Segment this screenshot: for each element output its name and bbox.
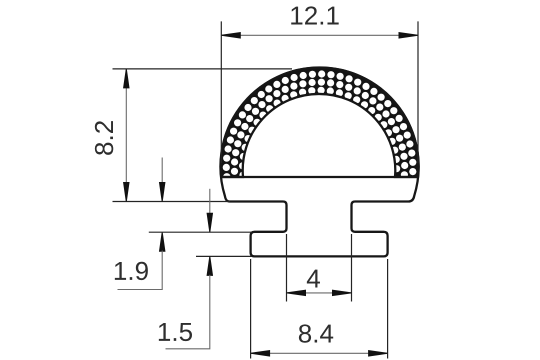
svg-text:8.4: 8.4 — [298, 319, 334, 349]
svg-text:1.5: 1.5 — [157, 317, 193, 347]
svg-text:12.1: 12.1 — [289, 1, 340, 31]
svg-text:8.2: 8.2 — [89, 120, 119, 156]
svg-text:1.9: 1.9 — [113, 256, 149, 286]
svg-text:4: 4 — [306, 264, 320, 294]
